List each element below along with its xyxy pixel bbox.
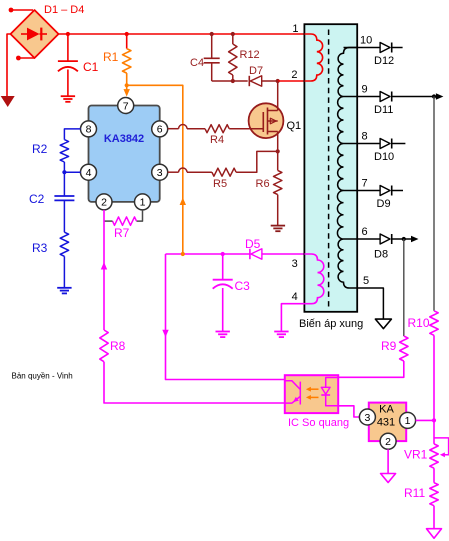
- diode D5: [249, 249, 251, 259]
- ground (C1): [61, 95, 75, 97]
- ground (C3): [216, 331, 230, 333]
- arrow up on aux wire: [180, 198, 186, 206]
- svg-text:D8: D8: [374, 249, 388, 261]
- svg-text:R12: R12: [240, 49, 260, 61]
- wire pin2 to ground: [387, 449, 389, 473]
- opto light arrow upper: [310, 388, 319, 390]
- pin 2: [96, 194, 112, 210]
- transformer core dashed line: [328, 30, 330, 307]
- ground (bridge, solid): [1, 96, 15, 107]
- node drain junction: [276, 79, 280, 83]
- svg-text:9: 9: [362, 84, 368, 96]
- svg-text:Q1: Q1: [287, 120, 302, 132]
- secondary tap 10 and diode D12: [344, 47, 381, 49]
- wire R7 to pin2 line: [104, 220, 113, 222]
- secondary tap 8 and diode D10: [344, 143, 381, 145]
- svg-text:3: 3: [292, 258, 298, 270]
- transformer Biến áp xung body: [304, 24, 357, 312]
- KA431 pin 2: [380, 433, 396, 449]
- svg-text:C4: C4: [190, 57, 204, 69]
- svg-text:D10: D10: [374, 151, 394, 163]
- svg-text:R7: R7: [114, 226, 130, 240]
- secondary tap 7 and diode D9: [344, 190, 381, 192]
- pin 3: [152, 164, 168, 180]
- ground (pin 5, open triangle): [375, 319, 391, 329]
- resistor R4: [205, 125, 229, 133]
- resistor R2: [60, 140, 68, 162]
- arrow output D11: [436, 93, 444, 99]
- svg-text:IC So quang: IC So quang: [288, 417, 349, 429]
- wire D8 node down to R9: [403, 239, 405, 336]
- node D8 junction: [402, 237, 406, 241]
- node D11 junction: [432, 94, 436, 98]
- pin 1: [135, 194, 151, 210]
- wire snubber bottom: [212, 80, 248, 82]
- IC KA431 body: [369, 403, 406, 442]
- svg-text:1: 1: [405, 415, 411, 427]
- resistor R12: [232, 34, 234, 44]
- wire pin1 down: [137, 210, 143, 221]
- svg-text:C3: C3: [235, 279, 251, 293]
- svg-text:R1: R1: [103, 50, 119, 64]
- svg-text:7: 7: [362, 178, 368, 190]
- svg-text:10: 10: [360, 35, 372, 47]
- svg-text:R5: R5: [213, 178, 227, 190]
- svg-text:1: 1: [140, 197, 146, 209]
- arrow into pin 7: [124, 89, 130, 97]
- resistor R6: [277, 151, 279, 170]
- svg-text:R11: R11: [404, 486, 425, 500]
- resistor R8: [100, 330, 108, 362]
- resistor R3: [60, 232, 68, 256]
- arrow down on aux feedback wire: [162, 330, 168, 338]
- secondary tap 6 and diode D8: [344, 238, 381, 240]
- svg-text:6: 6: [157, 124, 163, 136]
- AC input terminal bottom: [16, 56, 21, 61]
- svg-text:4: 4: [292, 291, 298, 303]
- pin 6: [152, 121, 168, 137]
- svg-text:VR1: VR1: [404, 448, 428, 462]
- resistor R7: [113, 217, 137, 225]
- wire pin2 feedback vertical: [103, 210, 105, 330]
- ground (R11, open triangle): [427, 529, 442, 539]
- wire pin2 to drain node (red): [278, 80, 305, 82]
- transistor Q1: [249, 103, 284, 138]
- svg-text:R2: R2: [32, 142, 48, 156]
- resistor R1: [126, 34, 128, 49]
- svg-text:3: 3: [364, 412, 370, 424]
- AC input terminal top: [9, 8, 14, 13]
- svg-text:7: 7: [123, 100, 129, 112]
- capacitor C2: [54, 195, 74, 197]
- opto phototransistor: [299, 382, 301, 405]
- node source junction: [276, 149, 280, 153]
- resistor R11: [433, 468, 435, 483]
- svg-text:C1: C1: [83, 60, 99, 74]
- svg-text:KA: KA: [379, 404, 394, 416]
- pin 4: [81, 164, 97, 180]
- wire pin6 to R4 with hop: [168, 128, 179, 130]
- svg-text:4: 4: [86, 167, 92, 179]
- svg-text:8: 8: [86, 124, 92, 136]
- KA431 pin 3: [359, 409, 375, 425]
- svg-text:D9: D9: [377, 198, 391, 210]
- wire pin3 to R5 with hop: [168, 171, 179, 173]
- resistor R5: [212, 168, 236, 176]
- pin 8: [81, 121, 97, 137]
- svg-text:2: 2: [385, 436, 391, 448]
- diode D7: [248, 76, 250, 86]
- svg-text:D1 – D4: D1 – D4: [44, 4, 84, 16]
- svg-text:R4: R4: [210, 134, 224, 146]
- svg-text:5: 5: [363, 275, 369, 287]
- svg-text:Biến áp xung: Biến áp xung: [299, 318, 363, 330]
- resistor R10: [430, 311, 438, 336]
- wire pin4 to ground: [281, 304, 304, 332]
- primary winding pins 1-2: [305, 34, 323, 81]
- svg-text:D12: D12: [374, 55, 394, 67]
- arrow output D8: [411, 236, 419, 242]
- arrow up to pin 2: [101, 262, 107, 270]
- wire bridge left to ground: [7, 34, 11, 96]
- wire pin8 left: [64, 129, 80, 140]
- svg-text:KA3842: KA3842: [104, 133, 144, 145]
- opto LED: [326, 378, 339, 388]
- bridge rectifier D1-D4: [11, 10, 59, 58]
- svg-text:D5: D5: [245, 237, 261, 251]
- svg-text:R8: R8: [110, 339, 126, 353]
- svg-text:1: 1: [292, 23, 298, 35]
- capacitor C3: [222, 254, 224, 280]
- svg-text:D7: D7: [249, 65, 263, 77]
- svg-text:C2: C2: [29, 192, 45, 206]
- ground (KA431 pin2, open triangle): [381, 474, 396, 483]
- wire main HV bus: [59, 33, 305, 35]
- opto light arrow lower: [310, 396, 319, 398]
- capacitor C1: [67, 34, 69, 61]
- ground (R3): [57, 287, 71, 289]
- svg-text:R9: R9: [381, 339, 397, 353]
- svg-text:2: 2: [291, 69, 297, 81]
- wire opto to KA431 pin3: [338, 406, 359, 417]
- svg-text:6: 6: [362, 226, 368, 238]
- svg-text:8: 8: [362, 131, 368, 143]
- svg-text:R10: R10: [408, 316, 430, 330]
- ground (R6): [271, 225, 285, 227]
- ground (pin 4): [274, 331, 288, 333]
- wire aux node: [166, 253, 250, 255]
- wire aux to opto collector: [166, 254, 285, 380]
- svg-text:2: 2: [101, 197, 107, 209]
- svg-text:R3: R3: [32, 241, 48, 255]
- optocoupler IC So quang body: [285, 375, 338, 413]
- potentiometer VR1: [430, 444, 438, 468]
- svg-text:3: 3: [157, 167, 163, 179]
- resistor R9: [400, 336, 408, 361]
- IC U1 KA3842 body: [89, 106, 160, 202]
- wire D11 node down to R10: [433, 97, 435, 311]
- secondary winding pins 10-5: [337, 48, 357, 289]
- svg-text:Bản quyền - Vinh: Bản quyền - Vinh: [12, 372, 73, 381]
- wire R1 to aux supply (orange): [127, 85, 183, 254]
- capacitor C4: [211, 34, 213, 58]
- svg-text:D11: D11: [374, 104, 393, 116]
- svg-text:431: 431: [377, 417, 395, 429]
- pin 7: [118, 98, 134, 114]
- secondary tap 9 and diode D11: [344, 96, 381, 98]
- wire pin1 to divider: [416, 419, 434, 421]
- KA431 pin 1: [400, 412, 416, 428]
- aux winding pins 3-4: [304, 254, 323, 304]
- wire junction to pin4: [64, 171, 80, 173]
- svg-text:R6: R6: [256, 178, 270, 190]
